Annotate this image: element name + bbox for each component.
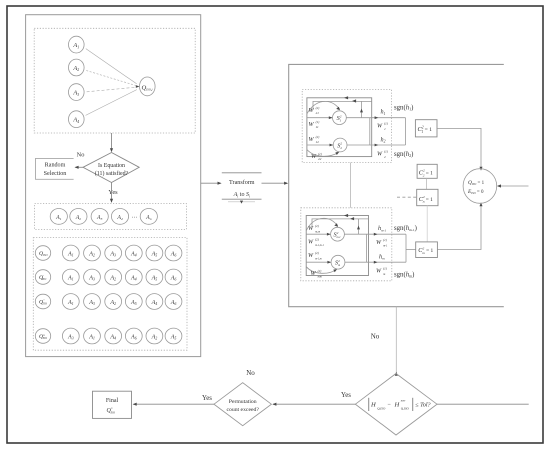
wire count-Yes to Final xyxy=(134,403,215,405)
node A1 row4 xyxy=(84,328,101,344)
svg-text:m-1: m-1 xyxy=(383,244,388,247)
wire A2-Q xyxy=(86,71,136,86)
svg-text:22: 22 xyxy=(318,157,322,161)
svg-text:m-1,m-1: m-1,m-1 xyxy=(315,244,324,247)
node Qiso row3 xyxy=(35,294,50,309)
label Wm-1,m(2) xyxy=(308,251,322,260)
lower unit dotted box xyxy=(301,208,392,281)
wire input Sm xyxy=(306,261,330,263)
wire diamond to row box xyxy=(111,183,113,202)
svg-text:sgn(h1): sgn(h1) xyxy=(394,104,413,111)
wire right into circle xyxy=(498,185,529,187)
feedback wire lower xyxy=(312,219,369,227)
svg-text:Yes: Yes xyxy=(341,392,351,399)
wire left panel to transform xyxy=(201,182,221,184)
svg-text:No: No xyxy=(371,333,380,341)
cross weight arc lower xyxy=(306,218,338,230)
wire bus to Cm xyxy=(406,249,416,251)
node Qiso row4 xyxy=(35,329,50,344)
node A5 row4 xyxy=(165,328,182,344)
svg-text:C22 = 1: C22 = 1 xyxy=(419,169,433,178)
svg-text:count exceed?: count exceed? xyxy=(227,407,260,413)
svg-text:EISO = 0: EISO = 0 xyxy=(467,189,484,195)
node Qiso row1 xyxy=(35,246,50,261)
label W2(1) xyxy=(377,149,388,158)
inner bus upper xyxy=(369,118,371,145)
svg-text:Permutation: Permutation xyxy=(229,399,257,405)
wire Cm to circle xyxy=(437,204,481,250)
node A1 row1 xyxy=(62,245,79,261)
node A6 row1 xyxy=(165,245,182,261)
svg-text:(2): (2) xyxy=(316,106,320,110)
wire A3-Q xyxy=(87,87,136,92)
svg-text:(2): (2) xyxy=(318,269,322,273)
svg-text:Transform: Transform xyxy=(229,179,255,186)
label W22(1) xyxy=(311,152,322,161)
node A5 row2 xyxy=(146,269,163,285)
wire S1 output h1 xyxy=(346,117,405,119)
label Wm-1(1) xyxy=(376,238,388,247)
label W1(1) xyxy=(377,122,388,131)
left panel box xyxy=(26,15,201,357)
neuron Sm xyxy=(331,255,345,269)
node A3 row1 xyxy=(105,245,122,261)
wire S2 output h2 xyxy=(347,144,406,146)
wire unit1-unit2 xyxy=(350,163,352,208)
row node A1 xyxy=(50,209,67,225)
label W12(2) xyxy=(309,135,320,144)
svg-text:S22: S22 xyxy=(337,142,342,150)
node A1 xyxy=(69,36,85,53)
row node A3 xyxy=(91,209,108,225)
svg-text:(1): (1) xyxy=(384,122,388,126)
box C1 xyxy=(415,120,437,137)
label W21(2) xyxy=(309,106,320,115)
svg-text:C21 = 1: C21 = 1 xyxy=(418,125,433,134)
svg-text:Random: Random xyxy=(45,163,66,169)
svg-text:Yes: Yes xyxy=(202,395,212,402)
wire input Sm-1 xyxy=(306,233,330,235)
upper unit dotted box xyxy=(302,90,391,163)
label W11(1) xyxy=(309,120,320,129)
node A4 row1 xyxy=(125,245,142,261)
svg-text:C2m = 1: C2m = 1 xyxy=(418,246,433,255)
box Cm xyxy=(416,242,438,258)
svg-text:new: new xyxy=(401,399,406,402)
feedback wire upper xyxy=(313,101,372,110)
node A3 row3 xyxy=(84,294,101,310)
label Wm-1,m-1(1) xyxy=(308,237,325,246)
feedback tap arrow lower xyxy=(358,219,360,234)
feedback tap arrow upper xyxy=(361,101,363,118)
svg-text:(1): (1) xyxy=(318,152,322,156)
svg-text:Selection: Selection xyxy=(44,171,67,177)
wire Sm output xyxy=(345,261,406,263)
svg-text:(1): (1) xyxy=(383,238,387,242)
neuron Sm-1 xyxy=(331,227,345,241)
node A1 row2 xyxy=(62,269,79,285)
svg-text:C23 = 1: C23 = 1 xyxy=(419,195,433,204)
wire transform to right box xyxy=(262,182,288,184)
dashed wire into C3 xyxy=(397,196,417,198)
svg-text:No: No xyxy=(77,152,85,159)
row node A4 xyxy=(111,209,128,225)
node A4 row4 xyxy=(105,328,122,344)
wire C3-Cm faint xyxy=(426,206,428,242)
box C2 xyxy=(417,164,437,178)
svg-text:No: No xyxy=(246,369,255,377)
wire C1 to circle xyxy=(437,128,481,169)
wire A1-Q xyxy=(86,49,137,84)
svg-text:(1): (1) xyxy=(316,120,320,124)
node A2 row2 xyxy=(105,269,122,285)
node A3 xyxy=(69,84,85,101)
svg-text:QISO = 1: QISO = 1 xyxy=(468,180,485,186)
wire No to Random Selection xyxy=(76,166,84,168)
row node A2 xyxy=(70,209,87,225)
box Final Qiso xyxy=(93,391,132,418)
decision diamond Is Equation (11) satisfied? xyxy=(83,153,139,183)
node A2 row4 xyxy=(146,328,163,344)
svg-text:sgn(hm): sgn(hm) xyxy=(394,271,414,278)
wire Sm-1 output xyxy=(344,233,406,235)
svg-text:(2): (2) xyxy=(316,135,320,139)
permutation row dotted box xyxy=(35,204,187,230)
wire assoc box to diamond xyxy=(111,133,113,151)
cross weight arc upper xyxy=(307,101,340,114)
node A3 row2 xyxy=(84,269,101,285)
decision diamond Permutation count xyxy=(214,383,271,426)
node A3 row4 xyxy=(62,328,79,344)
svg-text:(2): (2) xyxy=(315,251,319,255)
svg-text:Yes: Yes xyxy=(108,189,118,196)
svg-text:11: 11 xyxy=(316,125,319,129)
row node An xyxy=(140,209,157,225)
svg-text:Ai to Si: Ai to Si xyxy=(233,192,250,198)
outer bus upper xyxy=(405,118,407,145)
label Wmm(1) xyxy=(311,269,323,278)
svg-text:≤ Tol?: ≤ Tol? xyxy=(415,402,430,408)
node A4 xyxy=(69,111,85,128)
node A5 row3 xyxy=(125,294,142,310)
svg-text:Is Equation: Is Equation xyxy=(98,163,125,169)
self weight arc lower-S2 xyxy=(307,150,339,157)
goal circle xyxy=(463,169,497,204)
svg-text:(2): (2) xyxy=(315,224,319,228)
node Qiso row2 xyxy=(35,270,50,285)
box C3 xyxy=(417,189,438,205)
svg-text:sgn(h2): sgn(h2) xyxy=(394,151,413,158)
node A6 row2 xyxy=(165,269,182,285)
transform box xyxy=(222,173,262,204)
svg-text:m-1,m: m-1,m xyxy=(315,257,322,260)
box Random Selection xyxy=(36,158,74,179)
node A2 row3 xyxy=(105,294,122,310)
node A4 row2 xyxy=(125,269,142,285)
node A4 row3 xyxy=(146,294,163,310)
wire No from right box to diamond Tol xyxy=(395,307,397,373)
node A2 row1 xyxy=(84,245,101,261)
node QISOj xyxy=(140,77,156,96)
right big box xyxy=(289,64,504,306)
label Wm(1) xyxy=(376,266,387,275)
svg-text:(1): (1) xyxy=(384,149,388,153)
wire Tol to right edge xyxy=(437,403,529,405)
neuron S2 xyxy=(333,138,347,152)
wire input S2 xyxy=(307,144,333,146)
svg-text:…: … xyxy=(132,214,138,220)
node A1 row3 xyxy=(62,294,79,310)
label Wm,m-1(2) xyxy=(308,224,321,234)
self weight arc Sm xyxy=(306,267,336,274)
outer bus lower xyxy=(405,234,407,262)
inner bus lower xyxy=(366,234,368,262)
decision diamond Tol xyxy=(355,374,437,436)
svg-text:21: 21 xyxy=(316,111,320,115)
node A5 row1 xyxy=(146,245,163,261)
wire input S1 xyxy=(307,117,332,119)
wire A4-Q xyxy=(86,90,137,116)
svg-text:(11) satisfied?: (11) satisfied? xyxy=(95,170,129,177)
svg-text:Final: Final xyxy=(106,398,119,404)
wire C2-C3 xyxy=(425,178,427,189)
node A2 xyxy=(69,59,85,76)
wire Tol-Yes to count diamond xyxy=(273,403,355,405)
svg-text:(2): (2) xyxy=(315,237,319,241)
association dotted box xyxy=(34,28,195,133)
svg-text:(1): (1) xyxy=(383,266,387,270)
node A6 row4 xyxy=(125,328,142,344)
permutation set dotted box xyxy=(33,238,187,351)
svg-text:S21: S21 xyxy=(337,114,342,122)
svg-text:12: 12 xyxy=(316,140,320,144)
upper unit solid box xyxy=(307,98,372,157)
lower unit solid box xyxy=(306,216,368,276)
neuron S1 xyxy=(333,111,347,125)
node A6 row3 xyxy=(165,294,182,310)
